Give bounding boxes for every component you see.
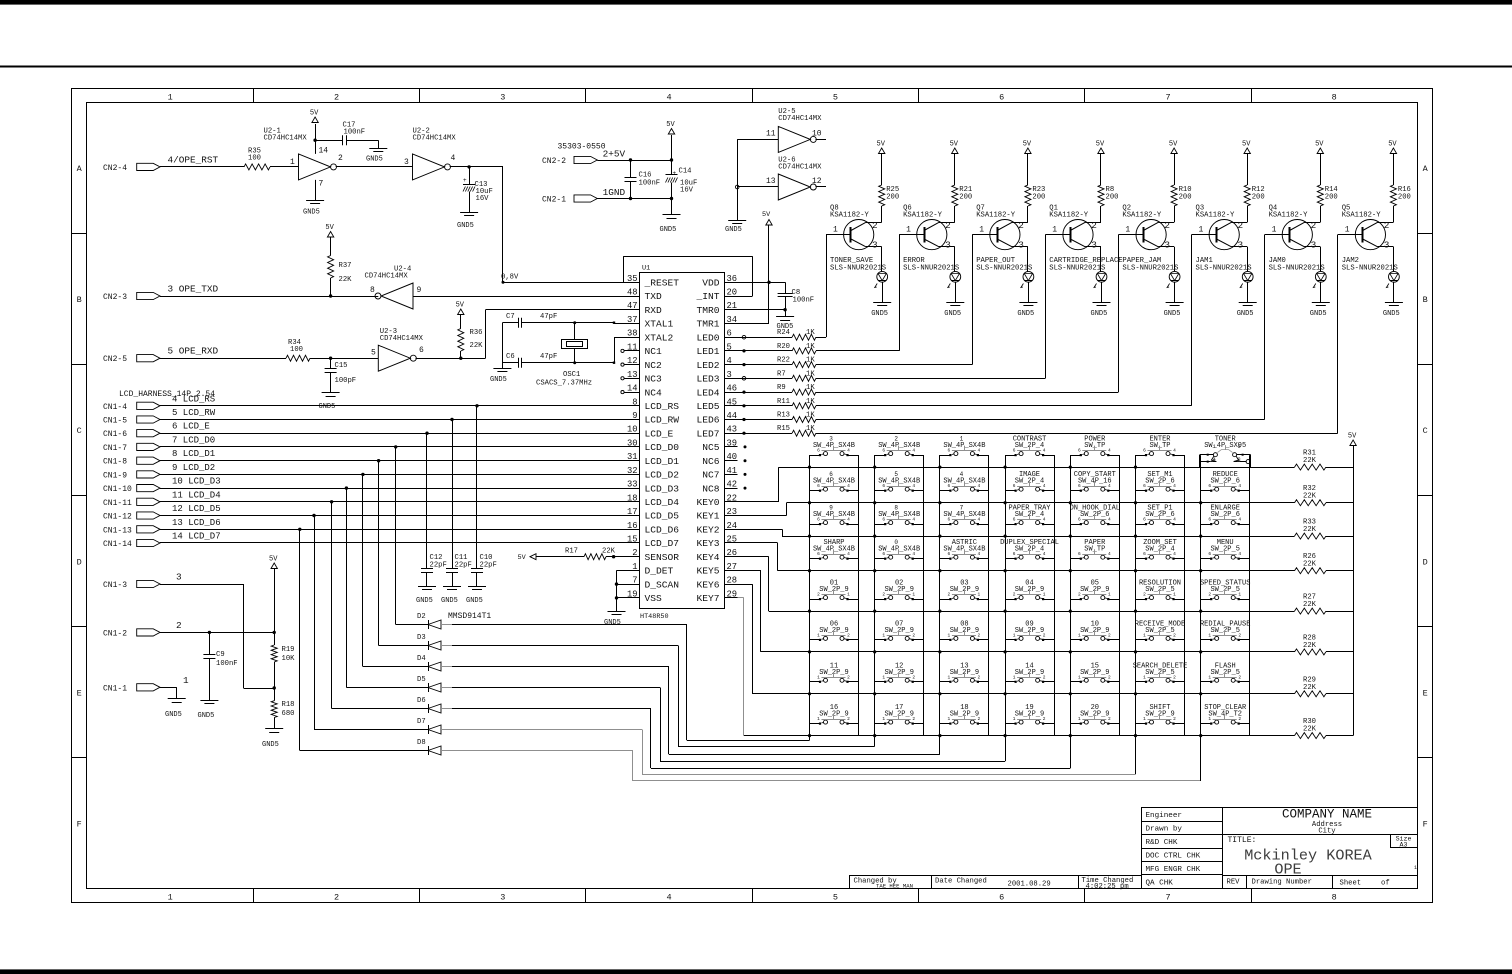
svg-text:LED1: LED1: [696, 346, 719, 357]
svg-text:31: 31: [627, 452, 638, 462]
svg-text:1K: 1K: [806, 425, 815, 433]
svg-text:200: 200: [1252, 194, 1265, 202]
svg-text:46: 46: [727, 384, 738, 394]
svg-text:XTAL1: XTAL1: [645, 319, 674, 330]
svg-text:6: 6: [1143, 517, 1146, 523]
svg-text:200: 200: [1106, 194, 1119, 202]
svg-text:2: 2: [1143, 592, 1146, 598]
svg-text:2: 2: [1238, 220, 1244, 231]
svg-text:3: 3: [1164, 240, 1170, 251]
svg-text:CN1-14: CN1-14: [103, 540, 132, 549]
svg-text:1: 1: [882, 716, 885, 722]
svg-text:5V: 5V: [1315, 141, 1324, 149]
svg-text:2: 2: [912, 716, 915, 722]
svg-text:B: B: [77, 295, 82, 305]
svg-text:LED3: LED3: [696, 374, 719, 385]
svg-text:6: 6: [1013, 517, 1016, 523]
svg-text:1: 1: [1199, 226, 1204, 235]
svg-text:1: 1: [1173, 592, 1176, 598]
svg-text:KSA1182-Y: KSA1182-Y: [1196, 212, 1236, 220]
svg-text:C6: C6: [506, 353, 515, 361]
svg-text:3: 3: [727, 370, 732, 380]
svg-text:1: 1: [1208, 632, 1211, 638]
svg-text:100nF: 100nF: [216, 660, 238, 668]
svg-text:1: 1: [912, 592, 915, 598]
svg-text:3: 3: [1238, 240, 1244, 251]
svg-text:U1: U1: [642, 265, 650, 273]
svg-text:1: 1: [817, 632, 820, 638]
svg-text:2: 2: [912, 632, 915, 638]
svg-text:SLS-NNUR2021S: SLS-NNUR2021S: [830, 265, 886, 273]
svg-text:KSA1182-Y: KSA1182-Y: [830, 212, 870, 220]
svg-text:SW_2P_5: SW_2P_5: [1210, 586, 1239, 594]
svg-text:1GND: 1GND: [603, 187, 626, 198]
svg-text:12: 12: [627, 356, 638, 366]
svg-text:KSA1182-Y: KSA1182-Y: [1049, 212, 1089, 220]
svg-text:GND5: GND5: [944, 310, 961, 318]
svg-text:Drawn by: Drawn by: [1146, 826, 1183, 834]
svg-text:CSACS_7.37MHz: CSACS_7.37MHz: [536, 380, 592, 388]
svg-text:6: 6: [948, 551, 951, 557]
svg-text:KEY6: KEY6: [696, 579, 719, 590]
svg-text:1K: 1K: [806, 357, 815, 365]
svg-text:SLS-NNUR2021S: SLS-NNUR2021S: [1122, 265, 1178, 273]
svg-text:7: 7: [632, 576, 637, 586]
svg-text:2: 2: [1018, 220, 1024, 231]
svg-text:GND5: GND5: [416, 597, 433, 605]
svg-text:1: 1: [948, 632, 951, 638]
svg-text:6: 6: [1143, 483, 1146, 489]
svg-text:5: 5: [727, 342, 732, 352]
svg-text:GND5: GND5: [604, 619, 621, 627]
svg-text:E: E: [1423, 688, 1428, 698]
svg-text:3: 3: [872, 240, 878, 251]
svg-text:GND5: GND5: [725, 226, 742, 234]
svg-text:TITLE:: TITLE:: [1228, 836, 1257, 845]
svg-text:13 LCD_D6: 13 LCD_D6: [172, 518, 221, 528]
svg-text:of: of: [1381, 880, 1390, 888]
svg-text:2: 2: [334, 893, 339, 903]
svg-text:R13: R13: [777, 412, 790, 420]
svg-text:NC1: NC1: [645, 346, 663, 357]
svg-text:GND5: GND5: [660, 226, 677, 234]
svg-text:4: 4: [912, 551, 915, 557]
svg-text:1: 1: [882, 674, 885, 680]
svg-text:14 LCD_D7: 14 LCD_D7: [172, 532, 221, 542]
svg-text:1: 1: [948, 674, 951, 680]
svg-text:MMSD914T1: MMSD914T1: [448, 612, 491, 621]
svg-text:6: 6: [882, 551, 885, 557]
svg-text:10K: 10K: [282, 655, 296, 663]
svg-text:5V: 5V: [1348, 433, 1357, 441]
svg-text:CD74HC14MX: CD74HC14MX: [778, 115, 822, 123]
svg-text:GND5: GND5: [366, 156, 383, 164]
svg-text:8: 8: [1332, 893, 1337, 903]
svg-text:200: 200: [1398, 194, 1411, 202]
svg-text:2: 2: [1043, 632, 1046, 638]
svg-text:B: B: [1423, 295, 1428, 305]
svg-text:GND5: GND5: [165, 711, 182, 719]
svg-text:Mckinley KOREA: Mckinley KOREA: [1244, 847, 1372, 865]
svg-text:6: 6: [882, 448, 885, 454]
svg-text:1: 1: [1345, 226, 1350, 235]
svg-text:2: 2: [1108, 716, 1111, 722]
svg-text:1: 1: [1208, 716, 1211, 722]
svg-text:4: 4: [1238, 483, 1241, 489]
svg-text:35303-0550: 35303-0550: [558, 143, 606, 152]
svg-text:C15: C15: [335, 362, 348, 370]
svg-text:6: 6: [999, 893, 1004, 903]
svg-text:6: 6: [999, 93, 1004, 103]
svg-text:1: 1: [1078, 674, 1081, 680]
svg-text:4: 4: [1173, 551, 1176, 557]
svg-text:16: 16: [627, 521, 638, 531]
svg-text:44: 44: [727, 411, 738, 421]
svg-text:3: 3: [404, 158, 409, 167]
svg-text:37: 37: [627, 315, 638, 325]
svg-text:GND5: GND5: [303, 209, 320, 217]
svg-text:6: 6: [948, 448, 951, 454]
svg-text:6: 6: [1078, 483, 1081, 489]
svg-text:4: 4: [960, 471, 964, 478]
svg-text:2: 2: [1091, 220, 1097, 231]
svg-text:1: 1: [168, 93, 173, 103]
svg-text:4: 4: [912, 483, 915, 489]
svg-text:9: 9: [632, 411, 637, 421]
svg-text:13: 13: [627, 370, 638, 380]
svg-text:19: 19: [627, 589, 638, 599]
svg-text:4: 4: [667, 893, 672, 903]
svg-text:100nF: 100nF: [344, 129, 366, 137]
svg-text:1: 1: [833, 226, 838, 235]
svg-text:R7: R7: [777, 370, 786, 378]
svg-text:6: 6: [817, 483, 820, 489]
svg-text:6: 6: [1013, 448, 1016, 454]
svg-text:City: City: [1318, 827, 1336, 835]
svg-text:Drawing Number: Drawing Number: [1252, 879, 1312, 887]
svg-text:SW_2P_6: SW_2P_6: [1210, 478, 1239, 486]
svg-text:8 LCD_D1: 8 LCD_D1: [172, 449, 215, 459]
svg-text:4: 4: [978, 483, 981, 489]
svg-text:KEY3: KEY3: [696, 538, 719, 549]
svg-text:8: 8: [894, 505, 898, 512]
svg-text:22K: 22K: [1303, 526, 1317, 534]
svg-text:SW_2P_9: SW_2P_9: [884, 627, 913, 635]
svg-text:LCD_D7: LCD_D7: [645, 538, 680, 549]
svg-text:R36: R36: [470, 329, 483, 337]
svg-text:2: 2: [1238, 632, 1241, 638]
svg-text:+: +: [463, 177, 467, 184]
svg-text:4: 4: [1238, 517, 1241, 523]
svg-text:D_DET: D_DET: [645, 566, 674, 577]
svg-text:6: 6: [948, 517, 951, 523]
svg-text:C9: C9: [216, 651, 225, 659]
svg-text:CN1-8: CN1-8: [103, 458, 127, 467]
svg-text:GND5: GND5: [1164, 310, 1181, 318]
svg-text:1: 1: [1238, 592, 1241, 598]
svg-text:1: 1: [948, 716, 951, 722]
svg-text:14: 14: [319, 147, 329, 156]
svg-text:5V: 5V: [325, 224, 334, 232]
svg-text:TXD: TXD: [645, 291, 663, 302]
svg-text:CN1-3: CN1-3: [103, 581, 127, 590]
svg-text:6: 6: [1078, 448, 1081, 454]
svg-text:6: 6: [1013, 551, 1016, 557]
svg-text:1: 1: [1013, 716, 1016, 722]
svg-text:A: A: [77, 164, 83, 174]
svg-text:DOC CTRL CHK: DOC CTRL CHK: [1146, 853, 1201, 861]
svg-text:8: 8: [1238, 457, 1241, 463]
svg-text:1: 1: [1208, 674, 1211, 680]
svg-text:14: 14: [627, 384, 638, 394]
svg-text:2: 2: [847, 716, 850, 722]
svg-text:1K: 1K: [806, 384, 815, 392]
svg-text:LCD_D6: LCD_D6: [645, 525, 680, 536]
svg-text:LED6: LED6: [696, 415, 719, 426]
svg-text:1: 1: [1043, 592, 1046, 598]
svg-text:KSA1182-Y: KSA1182-Y: [1269, 212, 1309, 220]
svg-text:LCD_D2: LCD_D2: [645, 470, 680, 481]
svg-text:VSS: VSS: [645, 593, 663, 604]
svg-text:_INT: _INT: [695, 291, 719, 302]
svg-text:D: D: [1423, 557, 1428, 567]
svg-text:5: 5: [833, 93, 838, 103]
svg-text:CN1-10: CN1-10: [103, 485, 132, 494]
svg-text:2: 2: [1078, 592, 1081, 598]
svg-text:10 LCD_D3: 10 LCD_D3: [172, 477, 221, 487]
svg-text:100: 100: [290, 346, 303, 354]
svg-text:4: 4: [1043, 517, 1046, 523]
svg-text:CN1-2: CN1-2: [103, 629, 127, 638]
svg-text:5V: 5V: [269, 556, 278, 564]
svg-text:6: 6: [1078, 551, 1081, 557]
svg-text:D5: D5: [417, 676, 426, 684]
svg-text:SLS-NNUR2021S: SLS-NNUR2021S: [1196, 265, 1252, 273]
svg-text:2: 2: [1013, 592, 1016, 598]
svg-text:7 LCD_D0: 7 LCD_D0: [172, 435, 215, 445]
svg-text:47pF: 47pF: [540, 353, 557, 361]
svg-text:KEY1: KEY1: [696, 511, 719, 522]
svg-text:KEY2: KEY2: [696, 525, 719, 536]
svg-text:6: 6: [817, 517, 820, 523]
svg-text:+: +: [673, 170, 677, 177]
svg-text:8: 8: [632, 397, 637, 407]
svg-text:22: 22: [727, 493, 738, 503]
svg-text:CN1-13: CN1-13: [103, 526, 132, 535]
svg-text:LED4: LED4: [696, 387, 719, 398]
svg-text:RXD: RXD: [645, 305, 663, 316]
svg-text:CN1-1: CN1-1: [103, 684, 127, 693]
svg-text:1K: 1K: [806, 412, 815, 420]
svg-text:NC3: NC3: [645, 374, 663, 385]
svg-text:6: 6: [882, 483, 885, 489]
svg-text:6: 6: [1208, 517, 1211, 523]
svg-text:6: 6: [948, 483, 951, 489]
svg-text:D_SCAN: D_SCAN: [645, 579, 680, 590]
svg-text:5V: 5V: [310, 110, 319, 118]
svg-text:16V: 16V: [680, 187, 694, 195]
svg-text:D4: D4: [417, 655, 426, 663]
svg-text:VDD: VDD: [702, 278, 720, 289]
svg-text:4: 4: [1173, 483, 1176, 489]
svg-text:MFG ENGR CHK: MFG ENGR CHK: [1146, 866, 1201, 874]
svg-text:GND5: GND5: [871, 310, 888, 318]
svg-text:5V: 5V: [1169, 141, 1178, 149]
svg-text:22K: 22K: [339, 276, 353, 284]
svg-text:10: 10: [627, 425, 638, 435]
svg-text:LED0: LED0: [696, 332, 719, 343]
svg-text:4: 4: [978, 551, 981, 557]
svg-text:6: 6: [1208, 551, 1211, 557]
svg-text:GND5: GND5: [1237, 310, 1254, 318]
svg-text:17: 17: [627, 507, 638, 517]
svg-text:OSC1: OSC1: [563, 371, 580, 379]
svg-text:COMPANY NAME: COMPANY NAME: [1282, 808, 1372, 822]
svg-text:GND5: GND5: [198, 712, 215, 720]
svg-text:F: F: [77, 819, 82, 829]
svg-text:1: 1: [817, 716, 820, 722]
svg-text:REV: REV: [1227, 879, 1241, 887]
svg-text:NC4: NC4: [645, 387, 663, 398]
svg-text:D6: D6: [417, 697, 426, 705]
svg-text:1: 1: [1143, 674, 1146, 680]
svg-text:23: 23: [727, 507, 738, 517]
svg-text:CD74HC14MX: CD74HC14MX: [264, 134, 308, 142]
svg-text:Date Changed: Date Changed: [935, 878, 987, 886]
svg-text:LCD_D0: LCD_D0: [645, 442, 680, 453]
svg-text:26: 26: [727, 548, 738, 558]
svg-text:22K: 22K: [1303, 561, 1317, 569]
svg-text:13: 13: [766, 177, 776, 186]
svg-text:22K: 22K: [1303, 642, 1317, 650]
svg-text:2: 2: [1173, 674, 1176, 680]
svg-text:GND5: GND5: [441, 597, 458, 605]
svg-text:SW_2P_5: SW_2P_5: [1210, 546, 1239, 554]
svg-text:3: 3: [1384, 240, 1390, 251]
svg-text:1: 1: [817, 674, 820, 680]
svg-text:SLS-NNUR2021S: SLS-NNUR2021S: [903, 265, 959, 273]
svg-text:200: 200: [1325, 194, 1338, 202]
svg-text:6: 6: [1013, 483, 1016, 489]
svg-text:R15: R15: [777, 425, 790, 433]
svg-text:XTAL2: XTAL2: [645, 332, 674, 343]
svg-text:SW_2P_6: SW_2P_6: [1210, 511, 1239, 519]
svg-text:1: 1: [1125, 226, 1130, 235]
svg-text:5: 5: [894, 471, 898, 478]
svg-text:5V: 5V: [518, 554, 527, 562]
svg-text:2001.08.29: 2001.08.29: [1008, 881, 1051, 889]
svg-text:CD74HC14MX: CD74HC14MX: [778, 164, 822, 172]
svg-text:CD74HC14MX: CD74HC14MX: [380, 335, 424, 343]
svg-text:200: 200: [1179, 194, 1192, 202]
svg-text:GND5: GND5: [1383, 310, 1400, 318]
svg-text:1: 1: [1143, 716, 1146, 722]
svg-text:LCD_RW: LCD_RW: [645, 415, 680, 426]
svg-text:4: 4: [1043, 448, 1046, 454]
svg-text:6: 6: [882, 517, 885, 523]
svg-text:4: 4: [667, 93, 672, 103]
svg-text:4: 4: [978, 448, 981, 454]
svg-text:4: 4: [1108, 517, 1111, 523]
svg-text:C16: C16: [639, 172, 652, 180]
svg-text:Engineer: Engineer: [1146, 812, 1182, 820]
svg-text:0,8V: 0,8V: [501, 274, 519, 282]
svg-text:4:02:25 pm: 4:02:25 pm: [1086, 883, 1129, 891]
svg-text:4: 4: [978, 517, 981, 523]
svg-text:2: 2: [894, 436, 898, 443]
svg-text:LCD_D5: LCD_D5: [645, 511, 680, 522]
svg-text:GND5: GND5: [1017, 310, 1034, 318]
svg-text:CD74HC14MX: CD74HC14MX: [413, 134, 457, 142]
svg-text:5V: 5V: [762, 211, 771, 219]
svg-text:22K: 22K: [1303, 601, 1317, 609]
svg-text:4: 4: [1108, 448, 1111, 454]
svg-text:45: 45: [727, 397, 738, 407]
svg-text:11: 11: [766, 130, 776, 139]
svg-text:CN1-12: CN1-12: [103, 513, 132, 522]
svg-text:6: 6: [1143, 551, 1146, 557]
svg-text:2: 2: [1043, 674, 1046, 680]
svg-text:2: 2: [817, 592, 820, 598]
svg-text:2: 2: [1173, 716, 1176, 722]
svg-text:4: 4: [451, 154, 456, 163]
svg-text:LCD_E: LCD_E: [645, 428, 674, 439]
svg-text:100: 100: [248, 155, 261, 163]
svg-text:CN1-9: CN1-9: [103, 471, 127, 480]
svg-text:LED5: LED5: [696, 401, 719, 412]
svg-text:1: 1: [1013, 674, 1016, 680]
svg-text:LED7: LED7: [696, 428, 719, 439]
svg-text:SW_4P_T2: SW_4P_T2: [1208, 711, 1242, 719]
svg-text:NC6: NC6: [702, 456, 720, 467]
svg-text:2: 2: [948, 592, 951, 598]
svg-text:5V: 5V: [950, 141, 959, 149]
svg-text:6: 6: [727, 329, 732, 339]
svg-text:A: A: [1423, 164, 1429, 174]
svg-text:16V: 16V: [476, 195, 490, 203]
svg-text:2: 2: [847, 632, 850, 638]
svg-text:GND5: GND5: [262, 741, 279, 749]
svg-text:1: 1: [1414, 865, 1417, 871]
svg-text:R24: R24: [777, 329, 790, 337]
svg-text:1: 1: [290, 158, 295, 167]
svg-text:11 LCD_D4: 11 LCD_D4: [172, 490, 221, 500]
svg-text:2: 2: [882, 592, 885, 598]
svg-text:5 LCD_RW: 5 LCD_RW: [172, 408, 216, 418]
svg-text:24: 24: [727, 521, 738, 531]
svg-text:R&D CHK: R&D CHK: [1146, 839, 1178, 847]
svg-text:CN2-4: CN2-4: [103, 164, 127, 173]
svg-text:_RESET: _RESET: [644, 278, 680, 289]
svg-text:2: 2: [978, 716, 981, 722]
svg-text:9: 9: [417, 286, 422, 295]
svg-text:22K: 22K: [1303, 684, 1317, 692]
svg-text:7: 7: [1165, 893, 1170, 903]
svg-text:2: 2: [1238, 674, 1241, 680]
svg-text:2: 2: [338, 154, 343, 163]
svg-text:R18: R18: [282, 701, 295, 709]
svg-text:KEY0: KEY0: [696, 497, 719, 508]
svg-text:2: 2: [1108, 632, 1111, 638]
svg-text:9 LCD_D2: 9 LCD_D2: [172, 463, 215, 473]
svg-text:KSA1182-Y: KSA1182-Y: [976, 212, 1016, 220]
svg-text:E: E: [77, 688, 82, 698]
svg-text:6: 6: [1143, 448, 1146, 454]
svg-text:1: 1: [183, 675, 189, 686]
svg-text:4: 4: [912, 448, 915, 454]
svg-text:4: 4: [1238, 551, 1241, 557]
svg-text:2: 2: [1108, 674, 1111, 680]
